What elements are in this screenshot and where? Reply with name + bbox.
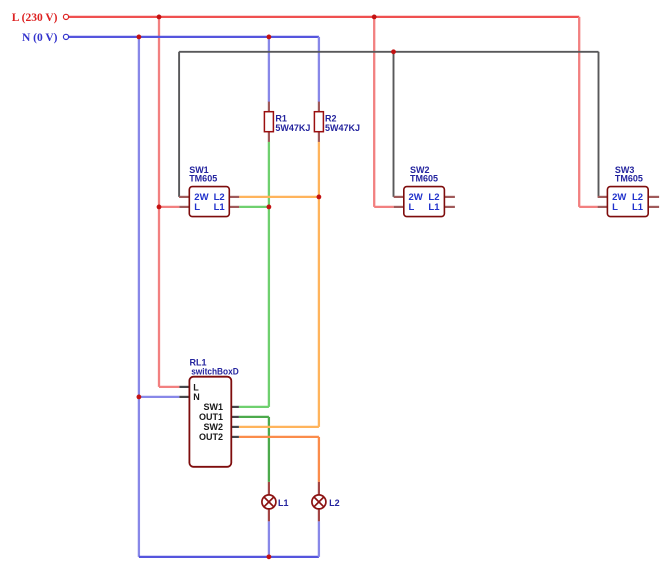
switch SW3 labels [612,165,644,213]
relay box RL1 pins [179,387,239,437]
wire SW1 net green [239,142,269,407]
wire N bottom rail [139,556,319,558]
wire L drop to SW2 [374,17,394,207]
junction L drop / SW1 L pin [157,205,162,210]
wire 2W gray rail [179,52,598,197]
svg-text:TM605: TM605 [189,174,217,184]
svg-text:L1: L1 [428,202,440,213]
wire OUT2 net orange [239,437,319,482]
svg-text:5W47KJ: 5W47KJ [275,123,310,133]
wire N rail horizontal [69,36,319,38]
svg-text:OUT1: OUT1 [199,412,223,422]
svg-text:N (0 V): N (0 V) [22,32,58,44]
wire L drop to SW3 [579,17,597,207]
terminal L (230 V) [63,14,68,19]
svg-text:N: N [193,392,200,402]
svg-text:L1: L1 [632,202,644,213]
svg-text:L2: L2 [329,498,340,508]
svg-text:SW1: SW1 [203,402,223,412]
svg-text:L: L [193,382,199,392]
resistor R1 leads [268,102,270,142]
svg-text:L1: L1 [278,498,289,508]
resistor R2 labels [325,113,360,132]
wire N drop to R1 [268,37,270,102]
svg-text:L1: L1 [214,202,226,213]
svg-text:L: L [612,202,618,213]
junction SW1 net / SW1 L1 pin [267,205,272,210]
switch SW3 body [607,187,648,217]
svg-text:OUT2: OUT2 [199,432,223,442]
svg-text:L (230 V): L (230 V) [12,12,58,24]
relay box RL1 labels [190,357,240,442]
svg-text:SW2: SW2 [203,422,223,432]
wire L rail horizontal [69,16,579,18]
wire N left vertical [139,37,180,557]
lamp L1 [262,482,276,521]
wire lamp L1 to N rail [268,521,270,557]
junction SW2 net / SW1 L2 pin [317,195,322,200]
junction bottom N rail / lamp L1 [267,554,272,559]
resistor R2 body [314,112,323,132]
wire N drop to R2 [318,37,320,102]
switch SW3 pins [598,197,660,207]
wire OUT1 net dark green [239,417,269,482]
switch SW1 pins [179,197,239,207]
wire lamp L2 to N rail [318,521,320,557]
junction L rail / SW2 drop [372,15,377,20]
switch SW2 labels [409,165,441,213]
junction N rail / R1 drop [267,35,272,40]
svg-text:switchBoxD: switchBoxD [191,367,239,377]
terminal N (0 V) [63,34,68,39]
resistor R2 leads [318,102,320,142]
relay box RL1 body [189,377,231,467]
wire L drop to SW1 and RL1 [159,17,179,387]
lamp L2 [312,482,326,521]
switch SW2 body [404,187,445,217]
wire SW2 net light orange [239,142,319,427]
switch SW1 body [189,187,229,217]
junction N vertical / RL1 N pin [137,395,142,400]
svg-text:L: L [194,202,200,213]
switch SW2 pins [394,197,455,207]
svg-text:5W47KJ: 5W47KJ [325,123,360,133]
switch SW1 labels [189,165,225,213]
svg-text:TM605: TM605 [615,174,643,184]
resistor R1 labels [275,113,310,132]
svg-text:L: L [409,202,415,213]
svg-text:TM605: TM605 [410,174,438,184]
junction L rail / SW1 drop [157,15,162,20]
junction N rail / left vertical [137,35,142,40]
junction 2W rail / SW2 drop [391,49,396,54]
resistor R1 body [264,112,273,132]
